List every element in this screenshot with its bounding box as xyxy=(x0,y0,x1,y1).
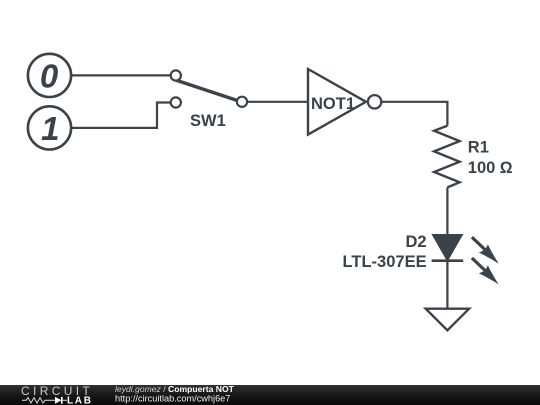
node 1 terminal xyxy=(28,106,71,149)
ground symbol xyxy=(426,309,469,331)
resistor R1 xyxy=(434,126,460,188)
logo resistor squiggle xyxy=(22,398,52,403)
node 0 terminal xyxy=(28,54,71,97)
wire R1 to D2 anode xyxy=(446,187,448,235)
switch SW1 top throw contact xyxy=(171,70,181,80)
logo diode xyxy=(52,397,67,404)
wire SW1 to NOT1 input xyxy=(247,101,308,103)
LED D2 emission arrow upper xyxy=(472,237,499,263)
svg-text:LAB: LAB xyxy=(67,395,93,405)
LED D2 emission arrow lower xyxy=(472,258,499,284)
switch SW1 common contact xyxy=(237,97,247,107)
wire node 1 to SW1 bottom throw xyxy=(71,103,170,128)
switch SW1 lever xyxy=(177,81,237,101)
svg-text:http://circuitlab.com/cwhj6e7: http://circuitlab.com/cwhj6e7 xyxy=(115,394,230,404)
wire NOT1 output to R1 xyxy=(381,102,447,126)
wire D2 cathode to ground xyxy=(446,261,448,309)
LED D2 anode triangle xyxy=(433,235,462,260)
gate NOT1 inversion bubble xyxy=(368,95,381,108)
svg-text:leydi.gomez / Compuerta NOT: leydi.gomez / Compuerta NOT xyxy=(115,384,235,394)
switch SW1 bottom throw contact xyxy=(171,97,181,107)
footer bar xyxy=(0,385,540,405)
LED D2 cathode bar xyxy=(432,259,464,262)
wire node 0 to SW1 top throw xyxy=(71,74,170,76)
gate NOT1 triangle xyxy=(308,69,366,135)
